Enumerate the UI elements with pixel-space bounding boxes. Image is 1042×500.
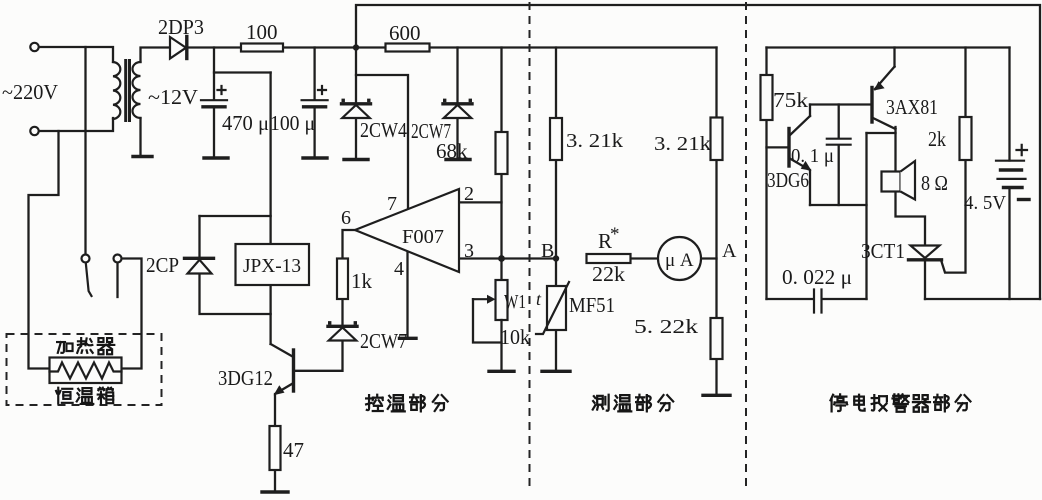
wire: battery positive lead (1008, 48, 1010, 161)
wire: 3DG6 emitter drop (809, 170, 811, 205)
wire: rail drop to resistor 68k (500, 48, 502, 133)
resistor 3.21k body (B branch) (550, 118, 562, 160)
wire: secondary bottom to ground (139, 118, 141, 155)
wire: W1 bottom to ground (500, 320, 502, 370)
relay contact switch blade (86, 263, 92, 296)
relay JPX-13 coil box (236, 244, 310, 285)
section label 测温部分 (593, 395, 609, 411)
svg-text:100 μ: 100 μ (270, 111, 315, 135)
svg-text:7: 7 (387, 193, 397, 215)
transistor Q2 3DG6 base bar (787, 129, 790, 167)
resistor 100 body (241, 44, 283, 52)
wire: op-amp pin 4 to ground (406, 251, 408, 337)
ground: transformer secondary (133, 155, 152, 158)
resistor 68k body (496, 132, 508, 174)
transistor Q3 3AX81 base bar (870, 88, 873, 123)
wire: alarm +V rail (767, 46, 1010, 48)
microammeter uA body (658, 237, 701, 280)
svg-text:47: 47 (283, 438, 304, 462)
potentiometer W1 wiper arrow (473, 298, 489, 300)
wire: 100u cap to ground (313, 107, 315, 157)
svg-text:~12V: ~12V (148, 85, 198, 109)
svg-text:3AX81: 3AX81 (886, 95, 938, 119)
wire: 2CW7 anode to ground (456, 119, 458, 159)
label thermostat box 恒温箱 (56, 388, 73, 404)
zener diode 2CW7 (regulator) (443, 102, 472, 105)
wire: battery negative lead (1008, 188, 1010, 300)
transistor Q2 3DG6 collector (789, 116, 810, 136)
wire: rail drop to 3.21k first (555, 48, 557, 119)
section separator dashed line 2 (745, 2, 747, 490)
node B junction (553, 255, 559, 261)
wire: resistor 47 to ground (274, 470, 276, 491)
svg-text:600: 600 (389, 21, 421, 45)
wire: R* to microammeter (631, 257, 658, 259)
wire: 68k bottom through pin2/pin3 node to W1 (500, 174, 502, 280)
wire: L1 drop to relay contact left (84, 47, 86, 255)
node: pin3/W1 junction (498, 255, 505, 262)
svg-text:4. 5V: 4. 5V (964, 192, 1007, 214)
wire: rail end down to 3.21k second (715, 48, 717, 118)
zener diode 2CW4 (342, 102, 371, 105)
op-amp U1 F007 body (355, 189, 459, 272)
wire: 470u cap to ground (213, 107, 215, 157)
capacitor C2 100u plates (302, 99, 328, 101)
terminal: AC input lower (30, 127, 38, 135)
svg-text:5. 22k: 5. 22k (634, 316, 698, 338)
thermistor MF51 body (547, 286, 566, 330)
svg-text:A: A (722, 240, 737, 262)
wire: alarm bottom-right rail (925, 298, 1040, 300)
wire: main +V rail (356, 46, 717, 48)
zener diode 2CW7b (level shift) (328, 325, 357, 328)
resistor 2k body (960, 117, 972, 160)
wire: AC L2 terminal to transformer primary bottom (39, 118, 114, 131)
thermistor MF51 diagonal (536, 282, 569, 334)
wire: 3CT1 gate to 2k (941, 160, 966, 273)
wire: op-amp pin 7 supply (356, 75, 408, 209)
wire: 3DG6 collector riser (809, 105, 811, 117)
wire: 75k to bottom-left rail (765, 120, 767, 299)
ground: 2CW7 (446, 158, 470, 161)
wire: top bypass rail to alarm section (356, 5, 1040, 299)
transistor Q3 3AX81 emitter with arrow (PNP) (875, 67, 895, 89)
wire: 470u cap drop (213, 48, 215, 100)
resistor 75k body (761, 75, 773, 120)
ground: C1 470u (204, 156, 228, 159)
wire: 2DP3 cathode to resistor 100 (187, 46, 242, 48)
wire: speaker to 3CT1 anode (896, 192, 926, 246)
wire: 100u cap drop (313, 48, 315, 100)
wire: 2CP cathode lead (198, 216, 200, 257)
resistor 600 body (386, 44, 430, 52)
wire: 3.21k second to node A to 5.22k (715, 160, 717, 318)
ground: C2 100u (303, 156, 327, 159)
capacitor C2 100u plus sign (318, 86, 326, 94)
ground: W1 potentiometer (489, 370, 514, 373)
ground: op-amp pin 4 (400, 337, 417, 340)
svg-text:68k: 68k (436, 139, 468, 163)
wire: secondary top to 2DP3 anode (141, 48, 171, 63)
svg-text:2: 2 (464, 183, 474, 205)
wire: op-amp pin 6 output to 1k (343, 230, 356, 259)
svg-text:3DG6: 3DG6 (767, 168, 809, 192)
wire: alarm rail to 75k (765, 48, 767, 76)
svg-text:75k: 75k (773, 88, 809, 112)
ground: 2CW4 (344, 158, 368, 161)
wire: 2CP anode lead and bottom branch (200, 274, 271, 314)
wire: op-amp pin 3 to node B (459, 257, 556, 259)
wire: 3CT1 cathode to bottom rail (924, 261, 926, 300)
svg-text:6: 6 (341, 207, 351, 229)
heater element zigzag (50, 363, 122, 379)
thyristor 3CT1 (911, 246, 940, 259)
svg-text:3DG12: 3DG12 (218, 366, 273, 390)
wire: 0.1u bottom lead (838, 147, 840, 206)
resistor 47 body (270, 426, 281, 470)
wire: 0.022u to collector node line (822, 298, 867, 300)
svg-text:*: * (610, 224, 620, 245)
wire: branch to relay coil (214, 71, 271, 73)
wire: relay coil feed vertical (269, 73, 271, 345)
svg-text:10k: 10k (500, 325, 530, 349)
capacitor 0.022u plates (814, 290, 822, 313)
transistor Q2 3DG6 emitter with arrow (789, 158, 808, 169)
wire: 5.22k to ground (715, 359, 717, 394)
svg-text:100: 100 (246, 20, 278, 44)
wire: op-amp pin 2 (459, 201, 502, 203)
heater element box (50, 358, 122, 384)
svg-text:B: B (541, 240, 554, 262)
wire: node to zener 2CW4 (355, 48, 357, 102)
diode 2DP3 (170, 37, 186, 59)
ground: 5.22k (703, 394, 730, 397)
terminal: AC input upper (30, 43, 38, 51)
label heater 加热器 (57, 342, 72, 353)
resistor R* 22k body (587, 254, 631, 263)
speaker driver body (882, 172, 901, 192)
section separator dashed line 1 (529, 2, 531, 490)
svg-text:~220V: ~220V (2, 80, 58, 104)
svg-text:μ A: μ A (665, 250, 694, 271)
diode 2CP (relay flyback) (185, 257, 214, 260)
wire: alarm rail drop to 2k (964, 48, 966, 118)
svg-text:22k: 22k (592, 262, 626, 286)
wire: 3.21k to node B and thermistor (555, 160, 557, 286)
svg-text:2DP3: 2DP3 (158, 15, 204, 39)
wire: 0.1u top lead (838, 105, 840, 138)
wire: L2 drop to heater left side (29, 131, 59, 369)
resistor 1k body (337, 259, 348, 300)
transistor Q1 3DG12 collector (271, 344, 294, 357)
wire: 3AX81 collector to speaker (894, 127, 896, 172)
relay contact right terminal (114, 255, 122, 263)
section label 停电报警器部分 (830, 394, 847, 411)
wire: 3AX81 emitter to rail (893, 48, 895, 67)
svg-text:3. 21k: 3. 21k (654, 133, 711, 155)
svg-text:W1: W1 (504, 291, 526, 313)
node: main +V junction (353, 44, 359, 50)
capacitor C1 470u plus sign (218, 86, 226, 94)
wire: 2CP cathode branch top (200, 215, 271, 217)
wire: MF51 to ground (555, 330, 557, 370)
svg-text:2CP: 2CP (146, 253, 179, 277)
svg-text:MF51: MF51 (569, 293, 615, 317)
battery plus sign (1017, 145, 1028, 155)
ground: MF51 (542, 370, 570, 373)
transistor Q3 3AX81 collector (872, 118, 896, 130)
wire: AC L1 terminal to transformer primary top (39, 47, 114, 62)
transformer T1 primary winding (113, 62, 120, 119)
svg-text:2CW7: 2CW7 (360, 329, 407, 353)
wire: relay contact right post (116, 263, 118, 298)
wire: emitter node rail (810, 204, 867, 206)
svg-text:0. 022 μ: 0. 022 μ (782, 265, 852, 289)
dashed enclosure: thermostat box (7, 334, 162, 405)
svg-text:8 Ω: 8 Ω (921, 171, 948, 195)
speaker cone (901, 161, 916, 200)
transistor Q1 3DG12 emitter with arrow (277, 383, 294, 393)
svg-text:2CW4: 2CW4 (360, 118, 407, 142)
svg-text:JPX-13: JPX-13 (243, 255, 301, 277)
wire: 3DG6 collector to 3AX81 base (810, 103, 870, 105)
wire: microammeter to node A (701, 257, 717, 259)
wire: 3DG12 emitter to resistor 47 (274, 394, 276, 426)
transformer T1 core (126, 59, 130, 122)
wire: collector node cross wire (867, 132, 896, 134)
wire: 3DG6 base lead (767, 146, 788, 148)
svg-text:470 μ: 470 μ (222, 111, 269, 135)
svg-text:3: 3 (464, 240, 474, 262)
svg-text:1k: 1k (351, 269, 373, 293)
svg-text:2k: 2k (928, 127, 946, 151)
relay contact left terminal (82, 255, 90, 263)
ground: resistor 47 (262, 490, 288, 493)
svg-text:0. 1 μ: 0. 1 μ (791, 145, 834, 167)
wire: 2CW7b anode to 3DG12 base (296, 341, 343, 371)
battery 4.5V plates (996, 160, 1024, 162)
resistor 5.22k body (711, 318, 723, 359)
wire: resistor 100 to main node (283, 46, 356, 48)
svg-text:F007: F007 (402, 226, 444, 248)
potentiometer W1 body (496, 280, 508, 320)
resistor 3.21k body (A branch) (711, 118, 723, 161)
wire: bottom-left rail to 0.022u (767, 298, 813, 300)
wire: rail drop to zener 2CW7 (456, 48, 458, 102)
wire: 1k to zener 2CW7b (341, 299, 343, 326)
capacitor 0.1u plates (827, 139, 851, 145)
svg-text:4: 4 (394, 258, 404, 280)
section label 控温部分 (366, 395, 383, 411)
wire: 2CW4 anode to ground (355, 119, 357, 159)
wire: relay contact right to heater right side (122, 259, 142, 369)
transistor Q1 3DG12 base bar (292, 350, 295, 391)
transformer T1 secondary winding (133, 62, 141, 118)
capacitor C1 470u plates (201, 99, 227, 101)
battery minus sign (1019, 198, 1030, 201)
wire: W1 wiper tie-down (473, 299, 502, 342)
wire: collector node down to bottom rail (865, 133, 867, 299)
svg-text:3CT1: 3CT1 (861, 239, 905, 263)
svg-text:3. 21k: 3. 21k (566, 130, 623, 152)
